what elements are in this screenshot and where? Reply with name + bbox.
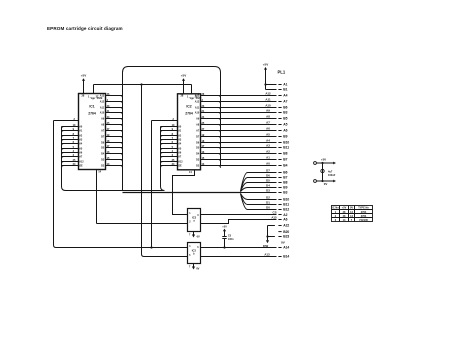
ground IC3b [189, 264, 200, 271]
svg-text:A2: A2 [283, 213, 287, 217]
wires data bus fan to PL1 [241, 169, 290, 212]
svg-text:A13: A13 [264, 252, 270, 256]
wire bottom bus A [65, 190, 164, 192]
svg-text:0V: 0V [197, 235, 200, 239]
power +5V IC2 pin28 [181, 74, 186, 94]
svg-text:B6: B6 [283, 106, 287, 110]
gate IC3a body [188, 209, 201, 232]
svg-text:+5V: +5V [342, 207, 347, 210]
svg-text:A3: A3 [266, 144, 270, 148]
node junction L1/L4 [150, 246, 152, 248]
svg-text:2764: 2764 [88, 112, 96, 116]
svg-text:0V: 0V [324, 182, 328, 186]
svg-text:B5: B5 [283, 117, 287, 121]
svg-text:A12: A12 [79, 161, 84, 164]
power +5V IC1 pin28 [81, 74, 86, 94]
svg-text:D0: D0 [266, 206, 270, 210]
svg-text:A10: A10 [195, 112, 200, 115]
wires IC2 left pins to bus [161, 124, 184, 168]
node junction PGM/L3 [140, 83, 142, 85]
wire IC1 CE select pin to far-left [54, 118, 79, 121]
wire IC1 pin14 to IC3a [97, 170, 188, 224]
svg-text:A5: A5 [266, 133, 270, 137]
svg-text:A6: A6 [266, 127, 270, 131]
EPROM IC2 2764 body [178, 94, 202, 170]
svg-text:B10: B10 [283, 198, 289, 202]
svg-text:B12: B12 [283, 208, 289, 212]
svg-text:A11: A11 [100, 107, 105, 110]
svg-text:A1: A1 [283, 83, 287, 87]
svg-text:OE: OE [79, 165, 83, 168]
svg-text:+5V: +5V [222, 226, 227, 229]
svg-text:A6: A6 [283, 218, 287, 222]
svg-text:A14: A14 [283, 246, 289, 250]
svg-text:+5V: +5V [181, 74, 186, 78]
svg-text:B3: B3 [283, 191, 287, 195]
wire L1 IC1 select to IC3b [54, 121, 188, 248]
wire L3 to IC3b pin [142, 85, 188, 257]
svg-text:A0: A0 [266, 162, 270, 166]
svg-text:B4: B4 [283, 164, 287, 168]
svg-text:B9: B9 [283, 186, 287, 190]
svg-text:B8: B8 [283, 152, 287, 156]
svg-text:PL1: PL1 [278, 70, 286, 75]
svg-text:A9: A9 [266, 109, 270, 113]
svg-text:TYPE No: TYPE No [358, 207, 369, 210]
wire IC2 CE select pin to L4 [152, 118, 178, 121]
svg-text:A11: A11 [265, 98, 271, 102]
wire IC3a jogged row [201, 215, 288, 223]
svg-text:B1: B1 [283, 88, 287, 92]
wires tied PL1 pins to 0V [266, 224, 290, 245]
svg-text:D6: D6 [266, 174, 270, 178]
svg-text:A1: A1 [266, 156, 270, 160]
title text [47, 26, 123, 31]
svg-text:A2: A2 [266, 150, 270, 154]
svg-text:A6: A6 [283, 129, 287, 133]
table IC pin list [332, 206, 373, 222]
svg-text:A12: A12 [195, 101, 200, 104]
svg-text:A8: A8 [266, 115, 270, 119]
svg-text:D2: D2 [266, 196, 270, 200]
wire IC2 left bus vertical [161, 127, 165, 191]
svg-text:B7: B7 [283, 158, 287, 162]
svg-text:A7: A7 [283, 100, 287, 104]
ground IC3a [189, 232, 200, 239]
svg-text:A12: A12 [100, 101, 105, 104]
wires IC2 right pins ladder to PL1 [195, 92, 290, 168]
connector PL1 label [278, 70, 286, 75]
svg-text:100nF: 100nF [328, 174, 336, 177]
svg-text:A13: A13 [100, 95, 105, 98]
wire IC3a output row [201, 211, 288, 217]
svg-text:0V: 0V [350, 207, 353, 210]
wire bottom bus B to fan [123, 192, 241, 194]
svg-text:+5V: +5V [321, 158, 326, 162]
svg-text:A11: A11 [195, 107, 200, 110]
svg-text:A12: A12 [265, 92, 271, 96]
svg-text:+5V: +5V [263, 62, 268, 66]
svg-text:D1: D1 [266, 201, 270, 205]
svg-text:2764: 2764 [185, 112, 193, 116]
svg-text:B9: B9 [283, 135, 287, 139]
svg-text:B7: B7 [283, 176, 287, 180]
wire IC3b output row 2 [201, 252, 290, 258]
svg-text:B8: B8 [283, 181, 287, 185]
svg-text:A10: A10 [100, 112, 105, 115]
svg-text:A4: A4 [283, 94, 287, 98]
capacitor C1 power input [314, 158, 336, 187]
wire IC2 pin14 to IC3a [173, 170, 195, 215]
wire IC3b output row 1 [201, 244, 290, 250]
wire L4 IC2 select drop [151, 121, 153, 248]
svg-text:A22: A22 [283, 224, 289, 228]
svg-text:B11: B11 [283, 203, 289, 207]
svg-text:A13: A13 [195, 95, 200, 98]
svg-text:B6: B6 [283, 171, 287, 175]
gate IC3b body [188, 243, 201, 264]
svg-text:B10: B10 [283, 141, 289, 145]
svg-text:D7: D7 [266, 169, 270, 173]
svg-text:B20: B20 [283, 230, 289, 234]
svg-text:0V: 0V [196, 267, 199, 271]
svg-text:D5: D5 [266, 179, 270, 183]
svg-text:A15: A15 [271, 215, 277, 219]
svg-text:2764: 2764 [361, 211, 367, 214]
svg-text:A5: A5 [283, 123, 287, 127]
svg-text:D3: D3 [266, 189, 270, 193]
svg-text:A10: A10 [265, 104, 271, 108]
svg-text:D4: D4 [266, 184, 270, 188]
power +5V to PL1 pins A1 B1 [263, 62, 288, 91]
svg-text:R/W: R/W [263, 244, 269, 248]
svg-text:74LS00: 74LS00 [359, 219, 368, 222]
svg-text:IC1: IC1 [89, 105, 94, 109]
svg-text:2764: 2764 [361, 215, 367, 218]
svg-text:OE: OE [178, 165, 182, 168]
wires IC1 left pins to bus [62, 124, 85, 168]
svg-text:B23: B23 [283, 235, 289, 239]
wires IC1 right pins to bus [100, 93, 123, 168]
svg-text:A7: A7 [266, 121, 270, 125]
svg-text:IC No: IC No [332, 207, 339, 210]
svg-text:B3: B3 [283, 111, 287, 115]
svg-text:B14: B14 [283, 255, 289, 259]
svg-text:EPROM cartridge circuit diagra: EPROM cartridge circuit diagram [47, 26, 123, 31]
wire IC1 left bus vertical [62, 127, 66, 191]
wire PGM pin27 IC1 to IC2 [94, 85, 192, 94]
svg-text:B11: B11 [283, 146, 289, 150]
wire top bus loop [123, 67, 221, 191]
svg-text:A12: A12 [178, 161, 183, 164]
svg-text:+5V: +5V [81, 74, 86, 78]
svg-text:A4: A4 [266, 139, 270, 143]
svg-text:CS: CS [272, 211, 276, 215]
svg-text:100n: 100n [228, 238, 234, 241]
svg-text:IC2: IC2 [186, 105, 191, 109]
capacitor C5 100n [222, 226, 234, 248]
op-amp U1 / EPROM IC1 2764 body [79, 94, 106, 170]
